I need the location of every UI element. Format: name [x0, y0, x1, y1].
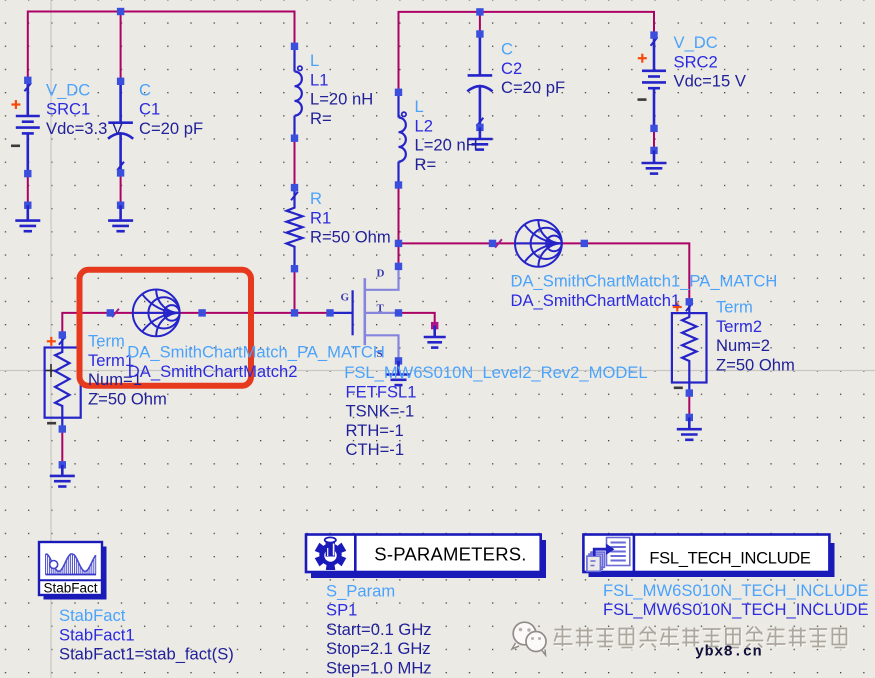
inductor symbol L2 [399, 92, 407, 185]
port Term1 [45, 348, 81, 418]
ground (FET T terminal) [424, 326, 446, 348]
wire L1 to R1 [294, 138, 296, 187]
smith chart symbol DA_SmithChartMatch1 [515, 220, 562, 267]
node C2 bottom pin [476, 124, 483, 131]
svg-text:Start=0.1 GHz: Start=0.1 GHz [326, 620, 432, 639]
node C1 gnd pin [117, 202, 124, 209]
resistor zigzag Term2 internal [682, 302, 696, 393]
node SRC2 pin - [650, 125, 657, 132]
node gate net junction [291, 309, 298, 316]
svg-text:R1: R1 [310, 208, 331, 227]
svg-text:R=: R= [310, 109, 332, 128]
capacitor symbol C2 [467, 34, 492, 127]
page boundary vertical line [50, 0, 52, 678]
stabfact waveform icon [46, 554, 96, 572]
svg-text:Step=1.0 MHz: Step=1.0 MHz [326, 659, 432, 678]
ground (below Term1) [50, 465, 75, 487]
svg-text:Vdc=15 V: Vdc=15 V [674, 72, 746, 91]
node Term2 bottom pin [686, 389, 693, 396]
svg-text:L: L [415, 97, 424, 116]
node smith2 pin1 [107, 309, 114, 316]
wire C2 drop [479, 12, 481, 34]
wire Term1 to ground [61, 429, 63, 465]
svg-text:StabFact: StabFact [43, 581, 97, 596]
node VCC1 junction [117, 8, 124, 15]
svg-text:Stop=2.1 GHz: Stop=2.1 GHz [326, 639, 431, 658]
svg-text:DA_SmithChartMatch1_PA_MATCH: DA_SmithChartMatch1_PA_MATCH [511, 272, 778, 291]
node Term1 pin [59, 331, 66, 338]
wire SRC1 to ground [27, 174, 29, 206]
svg-text:C: C [501, 40, 513, 59]
svg-text:V_DC: V_DC [46, 80, 90, 99]
svg-text:FSL_MW6S010N_Level2_Rev2_MODEL: FSL_MW6S010N_Level2_Rev2_MODEL [344, 363, 647, 382]
svg-text:RTH=-1: RTH=-1 [346, 421, 404, 440]
svg-text:FSL_MW6S010N_TECH_INCLUDE: FSL_MW6S010N_TECH_INCLUDE [603, 600, 869, 619]
svg-text:L=20 nH: L=20 nH [310, 90, 373, 109]
svg-text:DA_SmithChartMatch_PA_MATCH: DA_SmithChartMatch_PA_MATCH [127, 343, 385, 362]
svg-text:SRC2: SRC2 [674, 52, 718, 71]
pin 1 tick (smith1 input) [495, 239, 502, 247]
node T gnd node [431, 322, 438, 329]
minus polarity mark (SRC1) [11, 145, 20, 148]
svg-text:Num=2: Num=2 [716, 336, 770, 355]
svg-text:StabFact1: StabFact1 [59, 625, 135, 644]
ground (below C2) [467, 127, 492, 149]
page corner cross [45, 364, 58, 377]
svg-text:T: T [377, 303, 385, 315]
ground (below SRC2) [642, 150, 667, 173]
svg-text:FETFSL1: FETFSL1 [346, 382, 417, 401]
node L1 top pin [291, 43, 298, 50]
node smith2 pin2 [198, 309, 205, 316]
node C1 bottom pin [117, 169, 124, 176]
plus polarity mark (SRC1) [11, 100, 20, 109]
node R1 bottom pin [291, 265, 298, 272]
svg-text:StabFact1=stab_fact(S): StabFact1=stab_fact(S) [59, 645, 234, 664]
svg-text:Term2: Term2 [716, 317, 762, 336]
svg-text:CTH=-1: CTH=-1 [346, 440, 405, 459]
svg-text:Term: Term [716, 298, 753, 317]
node L1 bottom pin [291, 135, 298, 142]
pin 1 tick (C2) [477, 118, 484, 126]
svg-text:C: C [139, 80, 151, 99]
svg-text:SP1: SP1 [326, 601, 357, 620]
watermark chinese text (glyph strokes) [555, 628, 848, 649]
pin 1 tick (SRC2) [651, 37, 658, 45]
svg-text:R=50 Ohm: R=50 Ohm [310, 228, 391, 247]
wire C1 to ground [120, 173, 122, 205]
wire input net to gate [62, 313, 330, 335]
dc source battery symbol SRC2 [642, 35, 666, 128]
minus polarity mark (SRC2) [638, 98, 647, 101]
node SRC2 gnd pin [650, 147, 657, 154]
svg-text:Term: Term [88, 332, 125, 351]
svg-text:C2: C2 [501, 59, 522, 78]
wire L2 to drain [398, 185, 400, 266]
node SRC1 pin - [24, 170, 31, 177]
plus polarity mark (SRC2) [638, 54, 647, 63]
svg-text:C1: C1 [139, 100, 160, 119]
red highlight rectangle [80, 270, 252, 386]
node drain net junction [395, 240, 402, 247]
node FET source pin [395, 357, 402, 364]
pin 1 tick (C1) [117, 162, 124, 170]
watermark wechat icon [512, 622, 546, 655]
svg-text:FSL_TECH_INCLUDE: FSL_TECH_INCLUDE [649, 550, 810, 568]
S-PARAMETERS simulation block SP1 [39, 535, 848, 661]
pin 1 tick (R1) [291, 192, 298, 200]
node R1 top pin [291, 184, 298, 191]
node L2 top pin [395, 89, 402, 96]
documents icon [587, 538, 630, 572]
node FET gate pin [326, 309, 333, 316]
resistor zigzag Term1 internal [55, 335, 69, 429]
plus polarity mark (Term1) [47, 337, 56, 346]
svg-text:V_DC: V_DC [674, 33, 718, 52]
svg-text:StabFact: StabFact [59, 606, 126, 625]
svg-text:R=: R= [415, 155, 437, 174]
port Term2 [672, 313, 707, 382]
node VCC2 junction [476, 8, 483, 15]
node C2 top pin [476, 30, 483, 37]
svg-text:C=20 pF: C=20 pF [501, 78, 565, 97]
node Term1 bottom pin [59, 425, 66, 432]
pin 1 tick (SRC1) [24, 83, 31, 91]
gear icon [315, 537, 347, 570]
svg-text:SRC1: SRC1 [46, 100, 90, 119]
resistor zigzag R1 [287, 188, 303, 269]
svg-text:L1: L1 [310, 70, 328, 89]
node FET T pin [395, 309, 402, 316]
ground (FET source) [387, 361, 411, 385]
svg-text:DA_SmithChartMatch1: DA_SmithChartMatch1 [511, 291, 681, 310]
node L2 bottom pin [395, 181, 402, 188]
svg-text:S-PARAMETERS.: S-PARAMETERS. [374, 544, 526, 565]
plus polarity mark (Term2) [673, 303, 682, 312]
minus polarity mark (Term2) [674, 386, 683, 389]
svg-text:Vdc=3.3 V: Vdc=3.3 V [46, 119, 123, 138]
wire SRC2 to ground [653, 128, 655, 150]
FSL_TECH_INCLUDE block [583, 535, 834, 578]
svg-text:FSL_MW6S010N_TECH_INCLUDE: FSL_MW6S010N_TECH_INCLUDE [603, 581, 869, 600]
svg-text:Z=50 Ohm: Z=50 Ohm [716, 355, 795, 374]
wire drain match to Term2 [399, 243, 690, 301]
dc source battery symbol SRC1 [16, 80, 40, 173]
svg-text:L=20 nH: L=20 nH [415, 136, 478, 155]
pin 1 tick (Term2) [686, 303, 693, 311]
page boundary horizontal line [0, 370, 875, 372]
inductor symbol L1 [295, 46, 303, 138]
svg-text:Z=50 Ohm: Z=50 Ohm [88, 389, 167, 408]
node smith1 pin2 [581, 240, 588, 247]
svg-text:L: L [310, 51, 319, 70]
node SRC1 gnd pin [24, 202, 31, 209]
wire C1 drop [120, 12, 122, 82]
wire Term2 to ground [688, 393, 690, 417]
svg-text:L2: L2 [415, 116, 433, 135]
node Term2 pin [686, 298, 693, 305]
pin 1 tick (smith2 input) [112, 309, 119, 317]
smith chart symbol DA_SmithChartMatch2 [133, 290, 180, 337]
ground (below C1) [108, 205, 133, 231]
node Term2 gnd pin [686, 414, 693, 421]
node Term1 gnd pin [59, 461, 66, 468]
capacitor symbol C1 [108, 81, 133, 173]
node SRC1 pin + [24, 77, 31, 84]
svg-text:G: G [341, 292, 350, 304]
wire VCC2 rail [399, 12, 655, 92]
wire R1 to gate net [294, 269, 296, 313]
StabFact measurement block [39, 542, 107, 600]
node smith1 pin1 [489, 240, 496, 247]
svg-text:D: D [377, 268, 385, 280]
svg-text:DA_SmithChartMatch2: DA_SmithChartMatch2 [128, 362, 298, 381]
wire T terminal to ground [399, 313, 435, 326]
svg-text:S_Param: S_Param [326, 581, 395, 600]
svg-text:TSNK=-1: TSNK=-1 [346, 402, 415, 421]
transistor FETFSL1 [330, 266, 399, 361]
svg-text:ybx8.cn: ybx8.cn [695, 644, 762, 661]
svg-text:R: R [310, 189, 322, 208]
wire VCC1 rail [28, 12, 295, 81]
pin 1 tick (Term1) [59, 336, 66, 344]
node SRC2 pin + [650, 31, 657, 38]
ground (below SRC1) [15, 205, 40, 231]
ground (below Term2) [677, 417, 702, 439]
node FET drain pin [395, 263, 402, 270]
svg-text:C=20 pF: C=20 pF [139, 119, 203, 138]
minus polarity mark (Term1) [47, 422, 56, 425]
node C1 top pin [117, 78, 124, 85]
